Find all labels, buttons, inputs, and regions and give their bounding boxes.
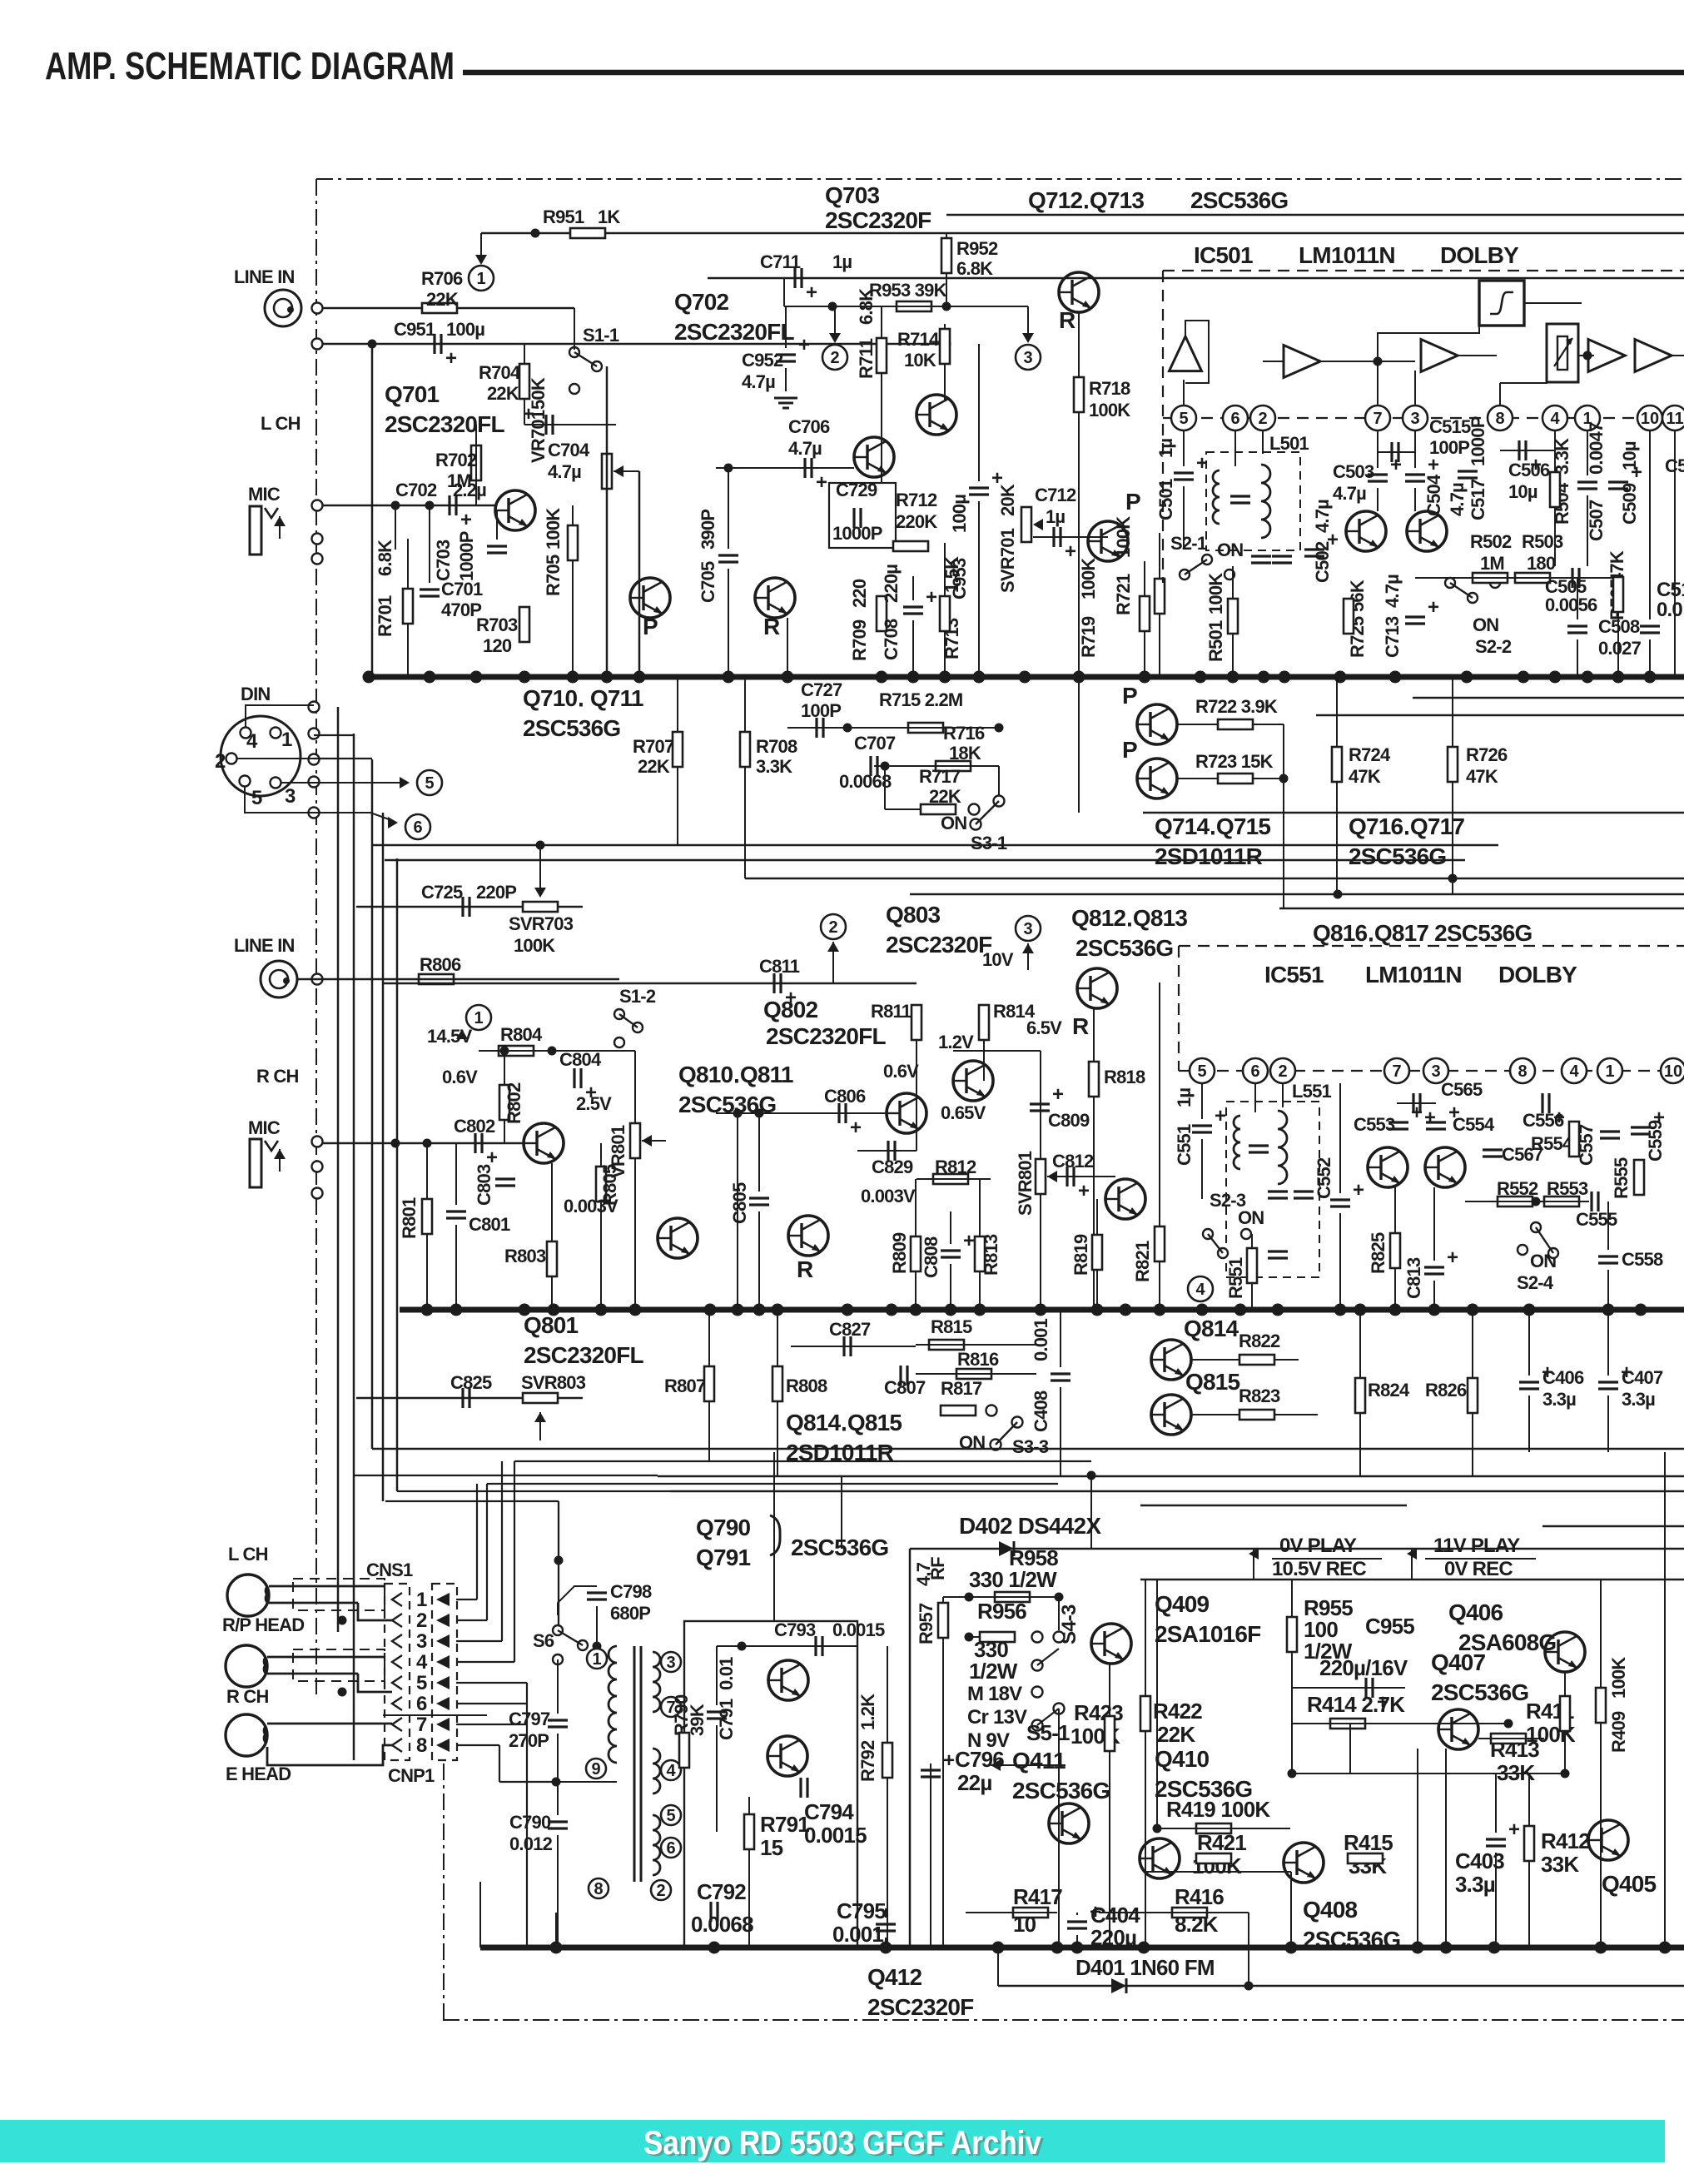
IC551 dashed left bbox=[1178, 946, 1180, 1071]
svg-text:+: + bbox=[1390, 454, 1402, 476]
transformer secondary mid bbox=[653, 1749, 660, 1793]
wire top power d bbox=[1140, 1505, 1407, 1507]
label MIC (L) bbox=[248, 484, 281, 505]
transistor Q815r bbox=[1151, 1395, 1191, 1435]
transistor Q703 bbox=[917, 395, 956, 435]
label Q412 bbox=[867, 1964, 922, 1990]
svg-text:4,7: 4,7 bbox=[913, 1562, 934, 1586]
svg-text:R554: R554 bbox=[1531, 1133, 1573, 1154]
svg-text:0.0: 0.0 bbox=[1657, 599, 1682, 621]
lead C805 b bbox=[758, 1211, 760, 1310]
resistor R704 bbox=[519, 364, 529, 399]
label R701 bbox=[375, 595, 395, 637]
svg-text:R708: R708 bbox=[756, 736, 797, 757]
svg-text:100K: 100K bbox=[1113, 516, 1134, 558]
svg-text:L CH: L CH bbox=[228, 1544, 268, 1565]
svg-text:R791: R791 bbox=[760, 1812, 809, 1837]
vertical x603 cnp3 bbox=[501, 1461, 503, 1641]
lead R818 bbox=[1093, 1008, 1095, 1062]
L501 dashed box bbox=[1206, 452, 1300, 550]
svg-text:IC551: IC551 bbox=[1264, 962, 1324, 988]
wire C706 bbox=[716, 467, 854, 469]
lead C798 b bbox=[596, 1606, 598, 1646]
svg-text:R CH: R CH bbox=[226, 1686, 269, 1707]
label C713 bbox=[1382, 616, 1403, 658]
wire C811 bbox=[383, 983, 917, 985]
value SVR703 100K bbox=[514, 935, 555, 956]
svg-text:C790: C790 bbox=[509, 1812, 551, 1833]
lead L501 b bbox=[1262, 430, 1264, 454]
svg-text:+: + bbox=[798, 334, 810, 356]
SVR703 arrow lead bbox=[539, 845, 541, 888]
label R791 bbox=[760, 1812, 809, 1837]
capacitor C794 bbox=[801, 1778, 807, 1798]
svg-text:Q816․Q817 2SC536G: Q816․Q817 2SC536G bbox=[1313, 920, 1532, 946]
lead C508 bbox=[1577, 578, 1578, 619]
CNP1 wire 7 bbox=[456, 1724, 527, 1725]
svg-text:3: 3 bbox=[416, 1630, 427, 1653]
resistor R422 bbox=[1140, 1696, 1150, 1731]
switch S2-1 bbox=[1180, 555, 1234, 580]
svg-text:4: 4 bbox=[246, 730, 258, 753]
transistor P left bbox=[658, 1218, 698, 1258]
svg-text:0.0015: 0.0015 bbox=[832, 1619, 885, 1640]
bus junction x1481 bbox=[1227, 671, 1239, 684]
label Q802 type bbox=[766, 1023, 886, 1049]
capacitor C806 bbox=[839, 1103, 862, 1139]
label C705 bbox=[698, 561, 718, 603]
bus2 junction x1250 bbox=[1035, 1304, 1047, 1316]
transistor Q810 mid bbox=[887, 1093, 926, 1133]
svg-text:6: 6 bbox=[416, 1693, 427, 1715]
transistor Q714 bbox=[1137, 704, 1177, 744]
label R721 bbox=[1113, 574, 1134, 615]
CNP1 arrow 4 bbox=[436, 1655, 450, 1669]
lead R708 b bbox=[744, 767, 746, 878]
label C555 bbox=[1576, 1209, 1617, 1230]
label R712 bbox=[896, 490, 937, 510]
bus junction x516 bbox=[424, 671, 436, 684]
wire R823 bbox=[1191, 1414, 1239, 1415]
svg-text:100K: 100K bbox=[1078, 558, 1099, 599]
capacitor L501 lower b bbox=[1272, 556, 1292, 563]
wire Q701 base row bbox=[494, 510, 497, 511]
svg-text:0.0056: 0.0056 bbox=[1545, 595, 1597, 615]
value VR701 50K bbox=[528, 377, 549, 410]
lead R821 b bbox=[1159, 1261, 1160, 1310]
svg-text:2SC536G: 2SC536G bbox=[1303, 1927, 1400, 1953]
capacitor C515 bbox=[1392, 442, 1398, 462]
lead R819 bbox=[1096, 1199, 1098, 1235]
label C813 bbox=[1403, 1257, 1424, 1299]
capacitor L551 bbox=[1249, 1146, 1269, 1152]
svg-text:Q702: Q702 bbox=[674, 289, 729, 315]
junction amp4 bbox=[1583, 351, 1592, 361]
resistor R951 bbox=[570, 228, 605, 238]
transformer secondary upper bbox=[653, 1652, 660, 1712]
svg-text:39K: 39K bbox=[687, 1704, 708, 1736]
CNP1 wire 5 bbox=[456, 1682, 527, 1684]
vertical S3-1 bbox=[998, 766, 1000, 796]
svg-text:Q712․Q713: Q712․Q713 bbox=[1028, 187, 1144, 213]
lead R705 b bbox=[572, 560, 574, 677]
label C517 bbox=[1468, 479, 1488, 520]
capacitor C725 bbox=[463, 897, 469, 917]
svg-text:R809: R809 bbox=[889, 1232, 910, 1274]
contact R717 bbox=[969, 804, 980, 815]
lead C705 b bbox=[728, 569, 729, 677]
label R956 bbox=[977, 1599, 1026, 1624]
wire C806 bbox=[716, 1112, 887, 1114]
wire R953 left bbox=[784, 306, 832, 307]
label R804 bbox=[500, 1024, 543, 1045]
svg-text:DOLBY: DOLBY bbox=[1440, 242, 1519, 268]
svg-text:ON: ON bbox=[1217, 540, 1243, 560]
value R955 100 bbox=[1304, 1617, 1338, 1642]
svg-text:R703: R703 bbox=[476, 614, 518, 635]
svg-text:2: 2 bbox=[215, 750, 226, 773]
junction mic R bbox=[391, 1139, 400, 1148]
vertical play1 bbox=[1253, 1549, 1254, 1580]
svg-text:R419 100K: R419 100K bbox=[1166, 1797, 1270, 1822]
junction C702 b bbox=[425, 501, 435, 510]
label R724 bbox=[1349, 744, 1391, 765]
resistor R552 bbox=[1498, 1196, 1532, 1206]
label C711 bbox=[760, 251, 801, 272]
svg-text:ON: ON bbox=[1238, 1207, 1264, 1228]
wire top rail2 bbox=[946, 214, 1684, 216]
wire C515 bbox=[1378, 451, 1415, 453]
lead C513 b bbox=[1649, 639, 1651, 677]
capacitor C825 bbox=[463, 1388, 469, 1408]
svg-text:R718: R718 bbox=[1089, 378, 1130, 399]
label C703 bbox=[433, 540, 454, 581]
svg-text:C725: C725 bbox=[421, 882, 463, 903]
vertical osc feed x930 bbox=[773, 1452, 775, 1621]
label R825 bbox=[1368, 1232, 1388, 1274]
lever S4-3 bbox=[1037, 1649, 1059, 1665]
transistor S4 upper bbox=[1091, 1624, 1131, 1664]
wire line-in L to R706 bbox=[323, 307, 574, 310]
resistor R722 bbox=[1218, 719, 1253, 729]
arrow SVR701 bbox=[1033, 519, 1043, 530]
contact S3-1 on bbox=[971, 819, 981, 830]
capacitor C795 bbox=[876, 1924, 896, 1931]
resistor R821 bbox=[1155, 1226, 1165, 1261]
variable resistor SVR801 bbox=[1036, 1159, 1046, 1194]
label IC501 dolby bbox=[1440, 242, 1519, 268]
lead R801 bbox=[426, 1143, 428, 1199]
svg-text:4: 4 bbox=[666, 1762, 676, 1780]
wire R715 bbox=[847, 727, 999, 729]
svg-text:0.6V: 0.6V bbox=[883, 1061, 919, 1082]
lead R826 b bbox=[1472, 1413, 1473, 1475]
svg-text:C712: C712 bbox=[1035, 485, 1076, 505]
svg-text:C705: C705 bbox=[698, 561, 718, 603]
label R551 bbox=[1225, 1257, 1246, 1299]
value C407 3.3u bbox=[1622, 1389, 1655, 1410]
label Q409 type bbox=[1155, 1621, 1261, 1647]
value R501 100K bbox=[1205, 573, 1226, 614]
bus junction x1982 bbox=[1644, 671, 1657, 684]
bus2 junction x1634 bbox=[1354, 1304, 1367, 1316]
IC551 dashed top bbox=[1179, 945, 1684, 947]
wire R951 rail bbox=[481, 232, 1684, 235]
value R703 120 bbox=[483, 635, 512, 656]
svg-text:50K: 50K bbox=[528, 377, 549, 410]
mic jack R bbox=[250, 1139, 278, 1187]
svg-text:0.027: 0.027 bbox=[1598, 638, 1642, 659]
capacitor C713 bbox=[1405, 596, 1439, 624]
head wire L b bbox=[269, 1602, 358, 1604]
label 0.003V b bbox=[861, 1186, 916, 1206]
wire R815 bbox=[916, 1344, 1036, 1346]
svg-text:4.7µ: 4.7µ bbox=[1333, 483, 1366, 504]
label R819 bbox=[1071, 1234, 1091, 1276]
lever S4-3 b bbox=[1037, 1709, 1059, 1725]
svg-text:R CH: R CH bbox=[256, 1066, 299, 1087]
CNP1 arrow 2 bbox=[436, 1614, 450, 1627]
wire head-e rail bbox=[391, 1723, 393, 1724]
svg-text:R825: R825 bbox=[1368, 1232, 1388, 1274]
svg-text:S1-2: S1-2 bbox=[619, 986, 656, 1007]
svg-text:10.5V REC: 10.5V REC bbox=[1272, 1558, 1366, 1580]
svg-text:11: 11 bbox=[1666, 410, 1683, 428]
svg-text:IC501: IC501 bbox=[1194, 242, 1253, 268]
lead C404 b bbox=[1076, 1935, 1078, 1948]
label C953 bbox=[949, 558, 970, 599]
amp5 out bbox=[1672, 355, 1684, 356]
label C955 bbox=[1365, 1614, 1414, 1639]
vertical S5 col bbox=[1058, 1709, 1060, 1948]
svg-text:M 18V: M 18V bbox=[967, 1683, 1022, 1705]
contact S3-3 on bbox=[991, 1440, 1001, 1450]
svg-text:+: + bbox=[1508, 1818, 1520, 1841]
node circle 3 R bbox=[1016, 916, 1041, 941]
lead R713 bbox=[944, 543, 946, 596]
svg-text:R: R bbox=[797, 1256, 813, 1282]
capacitor C404 bbox=[1067, 1901, 1101, 1928]
routing wire b bbox=[354, 1475, 658, 1476]
svg-text:3: 3 bbox=[1023, 920, 1032, 938]
label Q405 bbox=[1602, 1871, 1657, 1897]
resistor R804 bbox=[499, 1046, 534, 1056]
wire D401 bbox=[998, 1985, 1684, 1987]
svg-text:5: 5 bbox=[1197, 1062, 1206, 1081]
svg-text:180: 180 bbox=[1527, 553, 1556, 574]
svg-text:R811: R811 bbox=[871, 1001, 912, 1022]
box C729 bbox=[829, 483, 896, 548]
lead R412 bbox=[1528, 1774, 1530, 1826]
lead R702 up bbox=[475, 425, 477, 445]
transistor IC501 right bbox=[1407, 511, 1447, 551]
label CNP1 bbox=[388, 1765, 435, 1786]
pin8 wiring bbox=[1499, 383, 1501, 405]
svg-text:R801: R801 bbox=[399, 1197, 420, 1239]
bus2 junction x1177 bbox=[974, 1304, 986, 1316]
svg-text:+: + bbox=[1530, 454, 1542, 476]
lead L551 b bbox=[1282, 1083, 1284, 1107]
svg-text:C727: C727 bbox=[801, 679, 842, 700]
lead R809 bbox=[915, 1179, 917, 1236]
svg-text:C558: C558 bbox=[1622, 1249, 1663, 1270]
lead VR801 b bbox=[634, 1158, 636, 1310]
lead C808 bbox=[950, 1211, 951, 1244]
svg-text:10: 10 bbox=[1664, 1062, 1682, 1081]
wire to node3 bbox=[946, 306, 1028, 307]
value C406 3.3u bbox=[1542, 1389, 1576, 1410]
resistor R703 bbox=[519, 607, 529, 642]
label Q714 Q715 bbox=[1155, 813, 1270, 839]
ground C952 bbox=[774, 398, 797, 408]
bus junction x1296 bbox=[1073, 671, 1085, 684]
winding tap 9 bbox=[586, 1759, 606, 1779]
wire R804 row bbox=[479, 1050, 635, 1052]
capacitor L551 lower a bbox=[1268, 1191, 1288, 1198]
svg-text:3.3µ: 3.3µ bbox=[1455, 1872, 1495, 1897]
value R706 22K bbox=[426, 289, 459, 310]
inductor L501 b bbox=[1261, 465, 1270, 538]
svg-text:0.65V: 0.65V bbox=[941, 1102, 986, 1123]
value C704 4.7u bbox=[548, 461, 581, 482]
label R707 bbox=[633, 736, 674, 757]
svg-text:R951: R951 bbox=[543, 206, 584, 227]
L551 dashed box bbox=[1226, 1102, 1319, 1277]
wire right y859 bbox=[1316, 714, 1684, 717]
svg-text:R818: R818 bbox=[1104, 1067, 1145, 1087]
variable resistor VR801 bbox=[630, 1123, 640, 1158]
svg-text:2: 2 bbox=[656, 1882, 665, 1900]
voltage arrow line bbox=[991, 1764, 1066, 1766]
capacitor C802 bbox=[475, 1133, 498, 1169]
capacitor C712 bbox=[1054, 527, 1076, 563]
head wire E a bbox=[267, 1723, 392, 1725]
svg-text:R701: R701 bbox=[375, 595, 395, 637]
svg-text:C829: C829 bbox=[872, 1157, 913, 1177]
svg-text:DIN: DIN bbox=[241, 684, 271, 704]
svg-text:E HEAD: E HEAD bbox=[226, 1764, 291, 1784]
lead C404 bbox=[1076, 1913, 1078, 1915]
value C790 0.012 bbox=[509, 1833, 553, 1854]
svg-text:Sanyo RD 5503 GFGF Archiv: Sanyo RD 5503 GFGF Archiv bbox=[643, 2125, 1042, 2162]
capacitor C508 bbox=[1567, 626, 1587, 633]
lever S3-1 bbox=[976, 801, 999, 824]
svg-text:D401 1N60 FM: D401 1N60 FM bbox=[1075, 1955, 1215, 1980]
label S1-1 bbox=[583, 325, 619, 346]
bus2 junction x513 bbox=[421, 1304, 434, 1316]
svg-text:SVR703: SVR703 bbox=[509, 913, 574, 934]
wire top power b bbox=[658, 1475, 1684, 1478]
wire C812 bbox=[1047, 1176, 1115, 1177]
value C508 0.027 bbox=[1598, 638, 1642, 659]
svg-text:SVR801: SVR801 bbox=[1015, 1151, 1036, 1216]
bus3 junction x1064 bbox=[880, 1942, 892, 1954]
svg-text:CNS1: CNS1 bbox=[366, 1560, 413, 1580]
svg-text:R: R bbox=[763, 614, 780, 639]
label C551 bbox=[1174, 1124, 1195, 1166]
svg-text:R704: R704 bbox=[479, 362, 521, 383]
node circle 5 bbox=[417, 770, 442, 795]
vertical x618 cnp4 bbox=[514, 1461, 515, 1662]
transistor Q701 bbox=[495, 490, 535, 530]
bus2 junction x886 bbox=[732, 1304, 744, 1316]
bus2 junction x1018 bbox=[842, 1304, 854, 1316]
svg-text:P: P bbox=[1125, 489, 1140, 515]
lead R819 b bbox=[1096, 1270, 1098, 1310]
label R792 bbox=[857, 1740, 878, 1782]
label Q810 Q811 bbox=[678, 1062, 793, 1087]
CNS1 pin 6 bbox=[392, 1693, 427, 1715]
resistor R802 bbox=[499, 1085, 509, 1120]
value R708 3.3K bbox=[756, 756, 792, 777]
vertical S1-1 drop bbox=[574, 308, 575, 350]
label 0V REC bbox=[1444, 1558, 1513, 1580]
wire R552 R553 bbox=[1465, 1201, 1589, 1202]
svg-text:0.6V: 0.6V bbox=[442, 1067, 478, 1087]
svg-text:3.3µ: 3.3µ bbox=[1622, 1389, 1655, 1410]
capacitor C554 bbox=[1426, 1102, 1460, 1129]
svg-text:Q710․ Q711: Q710․ Q711 bbox=[523, 685, 643, 711]
lead R707 bbox=[677, 677, 678, 732]
svg-text:6: 6 bbox=[1250, 1062, 1259, 1081]
bus3 junction x1703 bbox=[1412, 1942, 1424, 1954]
svg-text:5: 5 bbox=[666, 1807, 675, 1825]
capacitor C793 bbox=[816, 1636, 822, 1656]
label C515 bbox=[1429, 416, 1471, 437]
lead R411 b bbox=[1564, 1731, 1566, 1774]
junction C951 right bbox=[942, 340, 951, 349]
label C552 bbox=[1314, 1157, 1334, 1199]
svg-text:Q406: Q406 bbox=[1448, 1599, 1503, 1625]
svg-text:R555: R555 bbox=[1611, 1157, 1632, 1199]
svg-text:20K: 20K bbox=[997, 484, 1018, 516]
capacitor C955 bbox=[1366, 1678, 1388, 1714]
routing vertical x668 bbox=[555, 1913, 557, 1948]
transistor IC551 a bbox=[1368, 1147, 1408, 1187]
amp mid wire bbox=[1263, 361, 1284, 362]
value C727 100P bbox=[801, 700, 841, 721]
label VR801 bbox=[608, 1125, 628, 1178]
inductor L551 a bbox=[1234, 1116, 1240, 1169]
label R723 15K bbox=[1195, 751, 1274, 772]
value C795 0.001 bbox=[832, 1922, 883, 1947]
capacitor C558 bbox=[1598, 1256, 1618, 1263]
contact S4-3 c bbox=[1032, 1687, 1043, 1698]
label Q703 type bbox=[825, 207, 931, 233]
svg-text:22K: 22K bbox=[426, 289, 459, 310]
svg-text:0.0047: 0.0047 bbox=[1586, 422, 1607, 475]
svg-text:S6: S6 bbox=[533, 1630, 554, 1651]
value R505 47K bbox=[1607, 550, 1627, 583]
lead R825 bbox=[1394, 1187, 1396, 1233]
svg-text:R957: R957 bbox=[916, 1603, 936, 1644]
resistor R709 bbox=[877, 596, 887, 631]
wire y1055 bbox=[745, 878, 1684, 880]
terminal mic R a bbox=[312, 1137, 323, 1147]
contact R817 bbox=[986, 1405, 997, 1416]
lead node1 bbox=[480, 233, 482, 255]
svg-text:Q405: Q405 bbox=[1602, 1871, 1657, 1897]
head wire L c bbox=[358, 1603, 392, 1620]
mic arrow R bbox=[274, 1149, 286, 1159]
svg-text:6.8K: 6.8K bbox=[956, 258, 993, 279]
bus2 junction x763 bbox=[629, 1304, 642, 1316]
svg-text:1/2W: 1/2W bbox=[969, 1659, 1018, 1684]
svg-text:Q703: Q703 bbox=[825, 182, 880, 208]
wire y1782 rail bbox=[487, 1483, 1058, 1485]
CNP1 arrow 3 bbox=[436, 1634, 450, 1648]
svg-text:R824: R824 bbox=[1368, 1380, 1410, 1400]
